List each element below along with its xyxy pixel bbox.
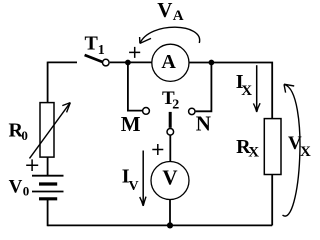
svg-text:A: A — [161, 51, 176, 73]
voltmeter circle V — [151, 162, 189, 200]
VX measuring arc arrow — [283, 85, 300, 217]
svg-text:V: V — [129, 179, 139, 194]
plus sign above voltmeter — [152, 144, 163, 155]
R0 variable arrow — [30, 103, 71, 159]
wire ammeter right to corner and down — [189, 63, 272, 119]
switch T2 lever — [169, 112, 172, 128]
switch T1 contact circle — [103, 59, 110, 66]
battery V0 plate long 2 — [32, 191, 64, 193]
svg-text:V: V — [9, 176, 23, 197]
node junction dot right — [209, 60, 215, 66]
svg-text:X: X — [241, 83, 252, 99]
IX current arrow — [256, 65, 258, 111]
ammeter A circle — [152, 44, 189, 81]
contact circle M — [143, 108, 150, 115]
svg-text:V: V — [162, 166, 177, 190]
wire M branch — [128, 63, 142, 111]
svg-text:A: A — [173, 8, 184, 24]
node junction dot left — [125, 60, 131, 66]
plus sign near R0/V0 — [26, 159, 38, 171]
node junction dot bottom — [167, 222, 173, 228]
wire R0 bottom to battery — [47, 157, 49, 176]
resistor RX box — [264, 119, 281, 175]
wire top-left horizontal — [48, 61, 77, 63]
svg-text:N: N — [196, 112, 211, 136]
wire below RX — [271, 175, 273, 226]
VA measuring arc arrow — [140, 27, 200, 43]
svg-text:0: 0 — [23, 183, 30, 198]
wire voltmeter bottom — [169, 200, 171, 226]
wire bottom rail — [48, 224, 273, 226]
switch T2 pivot circle — [167, 129, 174, 136]
svg-text:X: X — [248, 144, 259, 160]
wire T2 to voltmeter — [169, 136, 171, 162]
wire battery to bottom rail — [47, 199, 49, 226]
wire T1 to node — [110, 61, 152, 63]
battery V0 plate long 1 — [32, 175, 64, 177]
resistor R0 box — [40, 103, 54, 158]
svg-text:1: 1 — [98, 43, 105, 58]
switch T1 lever — [85, 55, 103, 62]
svg-text:0: 0 — [21, 128, 28, 143]
battery V0 plate short 2 — [39, 197, 57, 200]
svg-text:2: 2 — [172, 97, 179, 112]
contact circle N — [189, 108, 195, 114]
battery V0 plate short 1 — [39, 182, 57, 185]
svg-text:M: M — [121, 112, 141, 136]
plus sign near ammeter — [129, 47, 140, 58]
svg-text:X: X — [300, 144, 311, 160]
IV current arrow — [142, 151, 144, 206]
wire left rail vertical — [47, 62, 49, 103]
svg-text:V: V — [157, 0, 172, 22]
wire N branch — [196, 63, 212, 112]
svg-text:T: T — [85, 33, 99, 55]
